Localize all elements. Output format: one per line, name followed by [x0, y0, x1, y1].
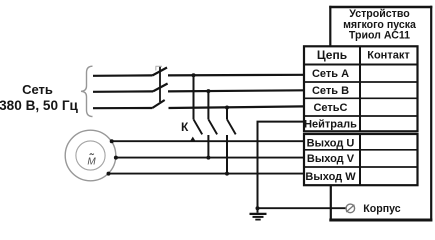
junction dot pole 2 on wire V [206, 156, 210, 160]
device title text [343, 8, 416, 41]
wire: phase C right segment [169, 106, 305, 108]
contactor K pole 1 fixed contact arrowhead on wire U [190, 137, 196, 142]
svg-text:Сеть А: Сеть А [312, 68, 349, 80]
wire: phase B left segment [93, 90, 153, 93]
wire: motor to Выход U [112, 140, 304, 142]
svg-text:Сеть В: Сеть В [312, 85, 349, 97]
contactor K blade pole 3 [227, 119, 236, 134]
svg-text:Выход W: Выход W [305, 171, 356, 183]
wire: contactor pole 2 lower stub to wire V [207, 135, 209, 158]
terminal table block 1 (Цепь header + Сеть А/В/С + Нейтраль) [304, 46, 418, 131]
svg-text:Выход V: Выход V [307, 153, 355, 165]
motor M inner circle [76, 141, 105, 170]
junction dot phase C [225, 106, 229, 110]
wire: phase A right segment [168, 74, 304, 77]
junction dot pole 3 on wire W [225, 172, 229, 176]
switch QF blade pole C [152, 100, 164, 108]
contactor K blade pole 1 [194, 119, 203, 134]
switch QF gray corner mark [156, 66, 163, 70]
svg-text:М: М [87, 157, 96, 168]
Корпус terminal circle [346, 204, 355, 213]
node: mains label Сеть 380 В, 50 Гц [0, 82, 79, 113]
svg-text:Контакт: Контакт [367, 50, 410, 62]
wire: motor to Выход W [109, 173, 305, 175]
brace for mains group [81, 66, 93, 116]
svg-text:Корпус: Корпус [363, 203, 400, 215]
motor M outer circle [65, 130, 116, 181]
motor terminal dot W [107, 172, 111, 176]
svg-text:380 В, 50 Гц: 380 В, 50 Гц [0, 98, 79, 113]
ground symbol [250, 214, 267, 220]
terminal table block 2 (Выход U/V/W) [304, 134, 418, 185]
wire: phase B right segment [168, 90, 304, 91]
wire: drop from phase A to contactor pole 1 [193, 75, 195, 119]
wire: drop from phase C to contactor pole 3 [226, 108, 228, 120]
svg-text:Нейтраль: Нейтраль [304, 118, 357, 130]
wire: phase C left segment [93, 107, 152, 109]
motor terminal dot V [114, 156, 118, 160]
svg-text:Триол АС11: Триол АС11 [349, 29, 410, 41]
svg-text:СетьС: СетьС [313, 102, 347, 114]
wire: contactor pole 3 lower stub to wire W [226, 135, 228, 174]
svg-text:К: К [181, 120, 189, 134]
wire: motor to Выход V [116, 157, 304, 159]
svg-text:Цепь: Цепь [317, 48, 347, 62]
wire: ground to Корпус terminal [258, 207, 347, 209]
motor terminal dot U [110, 139, 114, 143]
switch QF blade pole B [153, 84, 168, 92]
switch QF mechanical link [159, 67, 161, 103]
wire: neutral from table to ground [258, 122, 305, 213]
junction dot at ground branch [256, 206, 260, 210]
wire: phase A left segment [93, 74, 153, 77]
device outline box [329, 6, 432, 222]
junction dot phase A [192, 73, 196, 77]
wire: drop from phase B to contactor pole 2 [207, 91, 209, 119]
junction dot phase B [206, 89, 210, 93]
contactor K blade pole 2 [208, 119, 217, 134]
svg-text:Сеть: Сеть [22, 82, 53, 97]
switch QF blade pole A [153, 68, 168, 76]
svg-text:Выход U: Выход U [307, 137, 355, 149]
